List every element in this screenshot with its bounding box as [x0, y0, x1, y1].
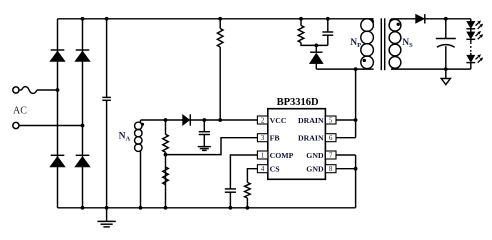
svg-text:DRAIN: DRAIN [298, 116, 324, 125]
svg-text:FB: FB [270, 134, 280, 143]
svg-text:BP3316D: BP3316D [277, 97, 319, 108]
svg-text:4: 4 [261, 166, 265, 173]
svg-text:COMP: COMP [270, 151, 294, 160]
svg-text:AC: AC [13, 106, 27, 117]
svg-text:GND: GND [306, 151, 324, 160]
svg-text:VCC: VCC [270, 116, 287, 125]
svg-text:GND: GND [306, 165, 324, 174]
svg-text:3: 3 [261, 135, 265, 142]
svg-text:CS: CS [270, 165, 280, 174]
svg-text:1: 1 [261, 152, 264, 159]
svg-text:DRAIN: DRAIN [298, 134, 324, 143]
svg-text:7: 7 [329, 152, 333, 159]
svg-text:8: 8 [329, 166, 333, 173]
svg-text:2: 2 [261, 117, 265, 124]
svg-text:6: 6 [329, 135, 333, 142]
svg-text:5: 5 [329, 117, 333, 124]
